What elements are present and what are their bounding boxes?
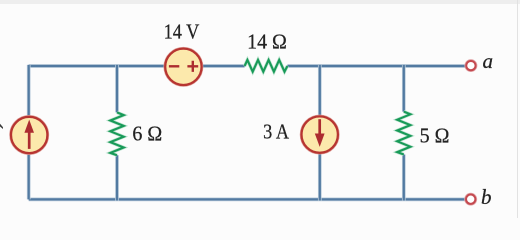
wire: 3A source branch vertical	[318, 65, 322, 201]
svg-text:a: a	[482, 49, 493, 73]
svg-text:3 A: 3 A	[263, 120, 290, 143]
current source I2 down-arrow head	[315, 134, 325, 147]
current source I1 (left, label cut off) circle	[11, 117, 47, 153]
svg-text:6 Ω: 6 Ω	[132, 123, 162, 146]
voltage source V1 plus sign	[187, 61, 198, 72]
terminal a (open node circle)	[466, 61, 475, 70]
terminal b (open node circle)	[466, 195, 475, 204]
wire: left vertical branch (through current source)	[27, 65, 31, 200]
svg-text:14 V: 14 V	[164, 20, 200, 43]
resistor R 6-ohm (vertical zigzag)	[110, 112, 123, 155]
svg-text:14 Ω: 14 Ω	[247, 31, 287, 54]
voltage source V1 minus sign	[169, 65, 179, 67]
resistor R 5-ohm (vertical zigzag)	[397, 112, 410, 155]
cut-off source label fragment at left edge	[0, 124, 3, 129]
current source I2 down-arrow shaft	[318, 119, 321, 136]
current source I1 up-arrow shaft	[28, 131, 31, 149]
svg-text:b: b	[481, 185, 492, 209]
wire: top horizontal, between voltage source and 14-ohm resistor	[200, 64, 245, 68]
voltage source V1 14 V (circle)	[165, 49, 201, 85]
current source I1 up-arrow head	[24, 120, 34, 133]
resistor R 14-ohm (horizontal zigzag)	[245, 60, 288, 72]
wire: bottom horizontal from left corner to terminal b	[29, 198, 466, 202]
current source I2 3 A circle	[302, 116, 338, 152]
wire: 5-ohm branch vertical segments	[402, 65, 406, 201]
wire: top horizontal, left segment (node junction to voltage source)	[29, 64, 166, 68]
wire: top horizontal, from 14-ohm resistor to terminal a	[287, 64, 465, 68]
wire: 6-ohm branch vertical segments	[115, 65, 119, 201]
svg-text:5 Ω: 5 Ω	[420, 125, 450, 148]
